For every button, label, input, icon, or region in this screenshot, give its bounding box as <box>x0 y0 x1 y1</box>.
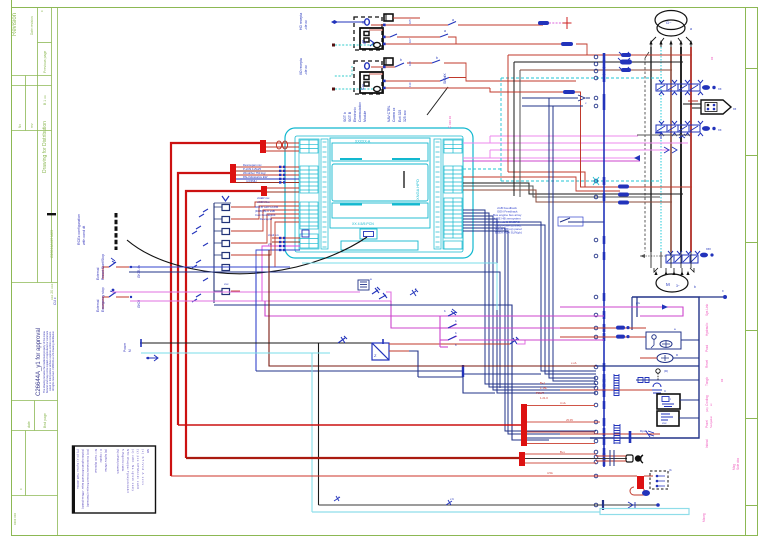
svg-text:Hydraulic: Hydraulic <box>705 322 709 336</box>
controller top board <box>332 143 428 161</box>
wire number labels <box>361 19 412 87</box>
controller main body top label bar <box>330 138 430 228</box>
connector strip X3 <box>666 247 714 263</box>
svg-text:a: a <box>452 18 454 22</box>
T4 branch wires <box>527 405 595 407</box>
svg-text:xx: xx <box>720 378 724 382</box>
svg-text:M: M <box>666 282 670 287</box>
svg-text:Inlxnd: Inlxnd <box>705 439 709 448</box>
wire navy lower pair extension <box>256 272 500 388</box>
module K1 pin terminal dots <box>383 24 386 46</box>
staircase labels <box>493 206 522 235</box>
fuse F3 <box>561 42 573 46</box>
svg-text:Nxvigation: Nxvigation <box>709 415 713 428</box>
wire magenta preset loop upper <box>112 291 360 293</box>
controller right terminal strip column <box>443 139 463 249</box>
RC ladder resistor R7 (separate) <box>214 282 240 295</box>
svg-text:Date revision: Date revision <box>30 16 34 35</box>
phase wire W black <box>680 47 682 252</box>
svg-text:Power: Power <box>123 342 127 352</box>
wire red valve 1 with fuses <box>560 327 646 329</box>
svg-text:a: a <box>690 27 692 31</box>
svg-text:15: 15 <box>361 83 365 87</box>
svg-text:x.xA: x.xA <box>571 361 577 365</box>
svg-text:C = Dpdbc: C = Dpdbc <box>99 449 103 463</box>
switch bank SB1 <box>440 309 604 347</box>
calibration mark (thick dashed) <box>115 213 118 250</box>
svg-text:C xxx xx: C xxx xx <box>448 116 452 128</box>
svg-text:C26644A M9 M23: C26644A M9 M23 <box>50 230 54 258</box>
svg-text:3~: 3~ <box>676 284 680 288</box>
connector strip X1 <box>656 80 722 95</box>
wire black bottom run <box>319 504 659 506</box>
svg-text:External: External <box>96 267 100 280</box>
glyph on black run <box>446 500 452 505</box>
svg-text:b: b <box>400 58 402 62</box>
svg-text:y4x: y4x <box>268 242 273 246</box>
generator lead arrows <box>651 37 691 47</box>
svg-text:B+1: B+1 <box>540 381 545 385</box>
pink pigtail and plus terminal <box>549 22 567 24</box>
svg-text:xxx: xxx <box>706 247 711 251</box>
controller inner rail right <box>434 139 441 249</box>
controller lower board <box>332 203 428 218</box>
feeder wire L3 thick red <box>186 191 262 458</box>
svg-text:Emergency stop: Emergency stop <box>101 287 105 312</box>
phase wire R red <box>690 47 692 252</box>
connector glyph on Z output <box>510 337 519 344</box>
svg-text:1.15F: 1.15F <box>540 386 547 390</box>
wire pale cyan under controller <box>302 262 497 264</box>
feeder wire L2 thick red <box>178 173 231 425</box>
gray lead to plug <box>637 134 690 136</box>
bus terminal circles <box>594 55 598 507</box>
svg-text:PSWT: PSWT <box>536 391 544 395</box>
wire magenta preset return <box>386 292 391 302</box>
L1 inline connector pair <box>276 141 287 149</box>
corner glyph <box>334 496 340 501</box>
wire navy right segment <box>596 365 699 367</box>
switch S1 external preset start/stop <box>96 254 290 280</box>
wire net magenta upper <box>463 160 640 162</box>
svg-text:Comm xx: Comm xx <box>392 107 396 122</box>
svg-text:External: External <box>96 299 100 312</box>
svg-text:xxx: xxx <box>662 421 667 425</box>
controller vertical tick label <box>403 171 405 188</box>
bus stub to terminal <box>699 296 723 298</box>
pink signal pair 1 <box>490 135 638 137</box>
module K2 (I/O receptacle) dashed enclosure <box>354 58 393 94</box>
relay RT box <box>358 277 372 290</box>
cable screen dashed drain vertical <box>644 58 646 252</box>
svg-text:GK15-4a: GK15-4a <box>137 265 141 278</box>
L3 pigtails into controller <box>267 188 299 192</box>
module K2 pins <box>365 63 370 69</box>
controller bottom connector box <box>302 229 418 250</box>
svg-text:NAV CTRL: NAV CTRL <box>387 105 391 122</box>
svg-text:4.5A: 4.5A <box>547 471 553 475</box>
plug P1 arrow connector <box>683 100 737 114</box>
svg-text:a: a <box>444 29 446 33</box>
notes box N <box>73 446 156 513</box>
RC ladder resistor R4 <box>214 241 230 247</box>
signature mark <box>47 213 56 215</box>
svg-text:CU x: CU x <box>53 297 57 305</box>
fuse holder assembly <box>626 455 643 463</box>
wire brown phase feed <box>463 190 672 202</box>
wire red valve 2 with fuses <box>560 336 646 338</box>
top feed black horiz <box>514 61 683 63</box>
svg-text:xx: xx <box>733 107 737 111</box>
right block inner riser <box>636 297 638 317</box>
svg-text:x b: x b <box>450 497 454 501</box>
sensor box B2 <box>657 411 679 426</box>
svg-text:Sxle xbx: Sxle xbx <box>736 458 740 470</box>
wire blue level <box>636 379 699 381</box>
connector glyphs after RT <box>372 287 380 294</box>
labels above block4 wires <box>268 233 280 246</box>
svg-text:110: 110 <box>408 82 412 87</box>
title block texts <box>12 10 54 525</box>
svg-text:x5.0V: x5.0V <box>566 418 573 422</box>
svg-text:pG: pG <box>636 301 641 305</box>
controller annotation leader line <box>427 87 448 115</box>
svg-text:Revision: Revision <box>12 13 18 36</box>
svg-text:1.21.0: 1.21.0 <box>540 396 548 400</box>
fuse stack lozenges right of bus <box>618 185 629 205</box>
terminator block bottom <box>637 476 644 489</box>
splice bar T1 <box>260 140 266 153</box>
staircase navy bundle from controller <box>463 98 596 434</box>
right block bus loop <box>590 297 699 438</box>
controller left terminal strip column <box>299 139 319 249</box>
svg-text:B+x: B+x <box>560 450 565 454</box>
RC diode marks column <box>192 209 208 302</box>
svg-text:Module: Module <box>363 111 367 122</box>
wire cyan dashed feedback <box>463 168 501 170</box>
connector glyphs mid <box>410 289 418 296</box>
svg-text:Sys Link: Sys Link <box>705 304 709 316</box>
pink label top right <box>710 56 714 60</box>
controller middle board <box>332 164 428 201</box>
feed B3 down <box>490 88 692 187</box>
isolator Z box <box>372 339 389 360</box>
svg-text:Dpds: Dpds <box>640 429 648 433</box>
svg-text:b: b <box>694 285 696 289</box>
dashed plug box <box>650 471 668 489</box>
svg-text:b: b <box>444 75 446 79</box>
wire S1 blue riser <box>255 267 257 371</box>
phase wire V brown <box>670 47 672 252</box>
svg-text:(D): (D) <box>664 369 668 373</box>
generator G1 ellipses top right <box>655 11 687 37</box>
aux wires into controller block4 <box>256 238 300 301</box>
svg-text:30: 30 <box>361 20 365 24</box>
wire red sense 2 <box>463 177 620 191</box>
top feed red down to motor bus <box>508 54 692 56</box>
splice bar T3 <box>261 186 267 196</box>
wire magenta solenoid <box>560 307 683 316</box>
tick bar on navy 437 <box>629 431 632 443</box>
module K1 left wires <box>331 20 373 47</box>
svg-text:105: 105 <box>408 19 412 24</box>
top feed gray from module B <box>519 70 521 197</box>
fine print block <box>42 297 57 393</box>
svg-text:(x) ST/Vcd A xxxx: (x) ST/Vcd A xxxx <box>141 449 145 486</box>
sensor box B1 <box>657 394 680 409</box>
svg-text:NTC Wrapper Tgnsystcondct: NTC Wrapper Tgnsystcondct <box>126 449 130 493</box>
svg-text:NB: NB <box>146 449 150 453</box>
RC fan labels <box>255 196 279 221</box>
module K2 right wires <box>369 60 576 88</box>
svg-text:5. Pxgm bx cable: 5. Pxgm bx cable <box>121 449 125 472</box>
contactor KM1 box <box>646 327 681 349</box>
svg-text:(b: (b <box>669 468 672 472</box>
svg-text:Preset-Start/Stop: Preset-Start/Stop <box>101 254 105 280</box>
svg-text:xx: xx <box>710 56 714 60</box>
svg-text:SGT B: SGT B <box>348 111 352 122</box>
wire red heater <box>560 389 655 391</box>
svg-text:Commutation: Commutation <box>358 102 362 122</box>
svg-text:Txngb: Txngb <box>705 377 709 386</box>
feeder L1 bottom run <box>171 475 631 477</box>
feeder L2 bottom run <box>178 424 522 426</box>
svg-text:xxxx xxx: xxxx xxx <box>13 513 17 525</box>
feeder L3 bottom run thick <box>186 457 519 459</box>
RC fan-out wires red nested <box>231 202 299 267</box>
svg-text:G~: G~ <box>666 20 672 25</box>
svg-text:Mxxrg: Mxxrg <box>702 513 706 522</box>
pink ends glyphs <box>655 133 685 139</box>
programming cable arc <box>127 237 367 274</box>
connector glyph on black sense <box>338 336 347 343</box>
svg-text:M: M <box>128 349 132 352</box>
wire pale cyan sense <box>141 352 330 354</box>
svg-text:XX 4.5/5 PCN: XX 4.5/5 PCN <box>352 222 374 226</box>
pale cyan bottom bus <box>312 511 600 513</box>
L2 terminal dots <box>279 166 285 184</box>
svg-text:(D) Gpftov xBcher: (D) Gpftov xBcher <box>104 449 108 472</box>
svg-text:rev: rev <box>30 123 34 128</box>
pink signal pair 2 <box>490 149 670 151</box>
module K1 (HD receptacle) dashed enclosure <box>354 14 393 50</box>
wire black phase feed <box>463 183 683 194</box>
svg-text:(xb): (xb) <box>705 407 709 412</box>
svg-text:BSEA x/BA SLR(qb): BSEA x/BA SLR(qb) <box>495 231 522 235</box>
svg-text:M = Yach Optional: M = Yach Optional <box>94 449 98 473</box>
hatch strip small mid <box>614 374 619 396</box>
RC ladder resistor R1 <box>214 205 230 211</box>
svg-text:date: date <box>27 421 31 428</box>
svg-text:Previous page: Previous page <box>43 51 47 73</box>
RCEx configuration label <box>77 214 86 245</box>
pump P ellipse <box>657 353 679 363</box>
feeder wire L1 thick red <box>171 143 261 476</box>
float switch <box>655 369 661 380</box>
screen drain dotted lead into X3 <box>640 255 666 257</box>
wire navy return loop <box>256 371 463 374</box>
RC ladder bus <box>213 203 215 303</box>
staircase switch <box>560 218 604 222</box>
module K2 left wire <box>332 66 373 91</box>
svg-text:Cooling: Cooling <box>705 395 709 406</box>
bus terminal ticks <box>603 53 606 466</box>
svg-text:107: 107 <box>408 38 412 43</box>
RC ladder top feed <box>214 202 231 204</box>
svg-text:SGT b: SGT b <box>343 112 347 122</box>
svg-text:xGDN 5xx: xGDN 5xx <box>257 200 270 204</box>
RC ladder resistor R3 <box>214 229 230 235</box>
svg-text:with cond dt: with cond dt <box>82 226 86 245</box>
svg-text:325 xxx: 325 xxx <box>403 110 407 122</box>
fuse F2 on module A line <box>538 21 549 25</box>
SGTx Electronic Commutation Module label <box>343 102 367 122</box>
switch S2 external emergency stop <box>96 287 141 312</box>
L2 pigtail labels <box>243 163 268 183</box>
svg-text:4.0/3MH: 4.0/3MH <box>246 179 257 183</box>
motor M1 <box>651 252 696 292</box>
wire navy aux <box>214 305 549 440</box>
controller inner rail left <box>321 139 328 249</box>
black riser to bottom <box>318 343 320 505</box>
wire red aux bottom <box>560 433 660 435</box>
svg-text:Bed page: Bed page <box>43 413 47 428</box>
svg-text:HD recepta: HD recepta <box>299 13 303 30</box>
L2 pigtails into controller <box>236 167 299 183</box>
wire magenta emergency riser <box>265 301 604 316</box>
module K2 pin terminal dots <box>383 66 386 90</box>
svg-text:Pxxd: Pxxd <box>705 345 709 352</box>
L1 pigtails into controller <box>266 143 299 151</box>
splice bar T2 <box>230 164 236 183</box>
svg-text:108: 108 <box>408 61 412 66</box>
svg-text:-cle xx: -cle xx <box>304 65 308 75</box>
svg-text:Exti 325: Exti 325 <box>398 110 402 122</box>
svg-text:-cle xx: -cle xx <box>304 20 308 30</box>
svg-text:Rexel: Rexel <box>705 360 709 368</box>
svg-text:xx: xx <box>718 128 722 132</box>
Z box output wire <box>389 350 409 352</box>
wire cyan dashed enclosure top <box>501 77 662 79</box>
blue lamp dot <box>642 490 650 496</box>
phase wire sense cyan dotted <box>660 47 662 252</box>
connector strip X2 <box>656 121 722 136</box>
svg-text:All rights reserved. C26644A x: All rights reserved. C26644A xx 23 drawi… <box>51 330 55 391</box>
svg-text:(T) (C,L) Cycler T&B dOthe: (T) (C,L) Cycler T&B dOthe <box>76 449 80 489</box>
svg-text:Electronic: Electronic <box>353 107 357 122</box>
svg-text:(y) pcs NTMocdr cab0: (y) pcs NTMocdr cab0 <box>136 449 140 489</box>
wire magenta emergency <box>130 300 391 302</box>
RC ladder resistor R5 <box>214 253 230 259</box>
svg-text:b: b <box>436 56 438 60</box>
red jumper loop <box>630 476 653 495</box>
terminals on black run <box>602 500 604 510</box>
cyan dash crossing mark <box>593 177 599 185</box>
title block <box>12 8 58 536</box>
RC ladder resistor R2 <box>214 217 230 223</box>
top feed black from module B <box>513 62 515 196</box>
controller U1 outer shell <box>285 128 473 258</box>
svg-text:I/O recepta: I/O recepta <box>299 58 303 75</box>
wire red sense 1 <box>508 172 692 187</box>
bus bar N1 vertical blue <box>603 55 605 467</box>
svg-text:xGnd xxx: xGnd xxx <box>268 233 280 237</box>
wire cyan dashed enclosure left <box>500 78 502 181</box>
splice bar T4 <box>521 404 527 446</box>
RC ladder resistor R6 <box>214 265 230 271</box>
svg-text:xx: xx <box>718 87 722 91</box>
svg-text:(z) xdbt. Ne rgtcdr xsmy: (z) xdbt. Ne rgtcdr xsmy <box>131 449 135 492</box>
svg-text:87: 87 <box>361 39 365 43</box>
wire gray phase feed <box>463 186 660 197</box>
wire dark red main <box>269 250 596 366</box>
notes text columns <box>76 449 150 509</box>
module K1 right wires with breaker contacts <box>369 18 587 55</box>
svg-text:B 1 xx: B 1 xx <box>43 95 47 105</box>
svg-text:Drawing for Distribution: Drawing for Distribution <box>42 121 48 173</box>
nav arrow ends <box>578 95 590 101</box>
pale cyan riser <box>311 353 313 512</box>
svg-text:(CX) Commutator;Circuit B key: (CX) Commutator;Circuit B keyer (DeCault… <box>86 449 90 507</box>
svg-text:C26644A_y1 for approval: C26644A_y1 for approval <box>36 328 42 396</box>
svg-text:(S) LiPold pxswitch: (S) LiPold pxswitch <box>116 449 120 474</box>
module K1 pins <box>365 19 370 25</box>
svg-text:Desmpnd: Desmpnd <box>260 217 272 221</box>
fuse F4 <box>563 90 575 94</box>
svg-text:(C,Moto Hybrid GB Circuit B k: (C,Moto Hybrid GB Circuit B keyer - PBLs… <box>81 449 85 509</box>
T5 branch wires <box>525 453 596 455</box>
svg-text:4 xA: 4 xA <box>560 401 566 405</box>
pink label column right <box>702 304 740 522</box>
power M arrow <box>146 355 158 361</box>
svg-text:xxx: xxx <box>224 282 229 286</box>
red labels on branch wires <box>536 361 577 475</box>
svg-text:XNGA HPO: XNGA HPO <box>415 179 420 200</box>
svg-text:Pxxel: Pxxel <box>705 420 709 428</box>
terminal on navy loop <box>462 365 464 377</box>
phase wire U black <box>650 47 652 252</box>
svg-text:RCEx configuration: RCEx configuration <box>77 214 81 245</box>
hatch terminal strip right of T4 <box>614 424 620 444</box>
wire black sense <box>140 342 372 344</box>
top lozenges near bus <box>618 52 632 72</box>
svg-text:No: No <box>18 124 22 128</box>
module labels rotated <box>299 13 454 122</box>
splice bar T5 <box>519 452 525 466</box>
